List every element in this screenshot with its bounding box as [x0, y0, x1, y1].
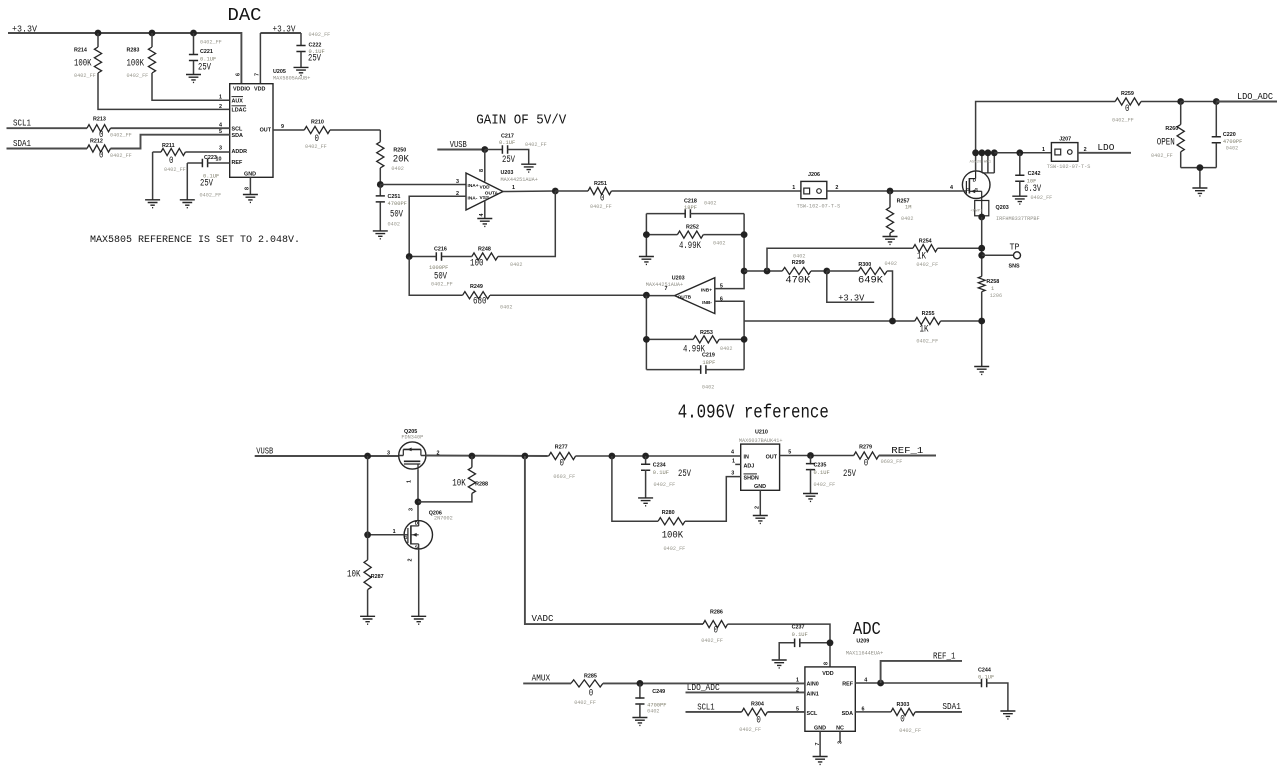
svg-text:C218: C218 [684, 199, 697, 205]
svg-text:0402_FF: 0402_FF [590, 204, 612, 210]
resistor R250 [377, 130, 410, 185]
svg-text:R285: R285 [584, 674, 597, 680]
wire INA- [409, 196, 466, 256]
svg-text:0402: 0402 [704, 201, 716, 207]
node C249 [637, 680, 644, 687]
svg-text:0402: 0402 [647, 709, 659, 715]
svg-text:R300: R300 [858, 262, 871, 268]
resistor R259 [1112, 91, 1181, 124]
svg-text:LDAC: LDAC [232, 108, 247, 114]
svg-text:0: 0 [600, 193, 605, 205]
svg-text:4: 4 [950, 185, 953, 191]
svg-text:OUTB: OUTB [678, 294, 692, 300]
svg-text:0402: 0402 [901, 216, 913, 222]
node C234 branch [642, 453, 649, 460]
net LDO [1078, 142, 1131, 153]
wire Q206 gate [368, 534, 405, 536]
svg-text:0: 0 [714, 625, 719, 637]
wire R260/C220 bottom [1181, 168, 1217, 188]
svg-text:R286: R286 [710, 610, 723, 616]
svg-text:4.096V reference: 4.096V reference [678, 401, 829, 423]
resistor R254 [767, 239, 982, 272]
svg-text:0: 0 [900, 714, 905, 726]
svg-text:1K: 1K [920, 324, 929, 336]
connector J206 [792, 172, 840, 210]
svg-text:LDO_ADC: LDO_ADC [687, 682, 720, 693]
resistor R299 [782, 254, 827, 287]
svg-text:0.1UF: 0.1UF [499, 140, 515, 146]
svg-text:ADJ: ADJ [744, 464, 755, 470]
capacitor C217 [485, 134, 547, 167]
resistor R288 [418, 456, 488, 502]
node VUSB [481, 146, 488, 153]
title ADC [853, 620, 881, 640]
wire U205 GND pin [249, 177, 251, 194]
svg-text:1: 1 [512, 185, 515, 191]
net VUSB [437, 139, 485, 150]
svg-text:4: 4 [731, 449, 734, 455]
svg-text:100K: 100K [74, 58, 92, 70]
node drain pins [972, 149, 998, 156]
wire Q206 source [418, 549, 420, 616]
op-amp U209 box [796, 639, 883, 746]
svg-text:4.99K: 4.99K [679, 240, 701, 252]
wire OUTA [503, 190, 555, 193]
node source [978, 214, 985, 221]
node VADC branch [522, 453, 529, 460]
svg-text:MAX5805 REFERENCE IS SET TO 2.: MAX5805 REFERENCE IS SET TO 2.048V. [90, 235, 300, 246]
svg-text:REF_1: REF_1 [891, 445, 924, 456]
svg-text:1: 1 [407, 480, 413, 483]
ground [411, 616, 426, 624]
svg-text:0402_FF: 0402_FF [814, 482, 836, 488]
wire Q205 gate down [417, 469, 419, 520]
capacitor C237 [772, 625, 830, 668]
resistor R211 [153, 143, 230, 200]
capacitor C251 [376, 185, 407, 231]
ground [180, 200, 195, 208]
Q203 package [971, 201, 1040, 223]
svg-text:6.3V: 6.3V [1024, 183, 1041, 195]
svg-text:3: 3 [731, 471, 734, 477]
svg-text:18PF: 18PF [702, 360, 715, 366]
ground [813, 757, 828, 765]
svg-text:0402_FF: 0402_FF [701, 638, 723, 644]
net VUSB bottom [255, 446, 399, 457]
svg-text:J207: J207 [1059, 137, 1071, 143]
net LDO_ADC [1216, 91, 1277, 102]
svg-text:8: 8 [245, 187, 251, 190]
svg-text:3: 3 [456, 179, 459, 185]
svg-text:1206: 1206 [990, 293, 1002, 299]
svg-text:OPEN: OPEN [1157, 137, 1175, 149]
resistor R257 [886, 191, 913, 237]
svg-text:U210: U210 [755, 430, 768, 436]
ground [186, 75, 201, 83]
ground [294, 67, 309, 75]
svg-text:MAX11644EUA+: MAX11644EUA+ [846, 651, 883, 657]
svg-text:1M: 1M [905, 205, 911, 211]
svg-text:7: 7 [665, 286, 668, 292]
svg-text:R255: R255 [922, 311, 935, 317]
pin numbers U205 [216, 73, 285, 190]
wire ADJ stub [735, 463, 741, 465]
svg-text:0402_FF: 0402_FF [110, 133, 132, 139]
wire U210 GND [759, 490, 761, 515]
svg-text:1: 1 [393, 529, 396, 535]
op-amp U210 box [731, 430, 791, 510]
svg-text:0402_FF: 0402_FF [1031, 195, 1053, 201]
resistor R286 [701, 610, 830, 667]
ground [1012, 196, 1027, 204]
wire top rail [976, 102, 1116, 153]
resistor R303 [855, 702, 921, 734]
svg-text:1: 1 [219, 95, 222, 101]
svg-text:10K: 10K [452, 478, 466, 490]
svg-text:0402_FF: 0402_FF [739, 727, 761, 733]
net AMUX [523, 673, 571, 684]
svg-text:<PWP1: <PWP1 [971, 209, 984, 214]
resistor R253 [646, 296, 744, 370]
svg-text:C251: C251 [388, 194, 401, 200]
node C220 top [1213, 98, 1220, 105]
node junction [95, 30, 197, 37]
net SCL1 [7, 118, 230, 129]
svg-text:VUSB: VUSB [256, 446, 273, 457]
svg-text:G: G [966, 187, 970, 193]
svg-text:SCL1: SCL1 [13, 118, 31, 129]
svg-text:0.1UF: 0.1UF [814, 470, 830, 476]
svg-text:0402: 0402 [793, 254, 805, 260]
svg-text:3: 3 [409, 508, 415, 511]
svg-text:1: 1 [792, 185, 795, 191]
wire to INA+ [380, 184, 466, 186]
ground [360, 616, 375, 624]
ground [639, 257, 654, 265]
svg-text:0402_FF: 0402_FF [431, 282, 453, 288]
svg-text:C216: C216 [434, 247, 447, 253]
ground [521, 164, 536, 172]
svg-text:VDD: VDD [822, 671, 833, 677]
svg-text:0402_FF: 0402_FF [525, 142, 547, 148]
node VUSB junctions [364, 453, 371, 460]
resistor R285 [571, 674, 805, 707]
svg-text:0402_FF: 0402_FF [110, 153, 132, 159]
svg-text:100K: 100K [662, 530, 684, 542]
node R255 right [978, 318, 985, 325]
wire NC stub [839, 731, 841, 742]
svg-text:C244: C244 [978, 668, 991, 674]
note text [90, 235, 300, 246]
svg-text:SNS: SNS [1009, 264, 1020, 270]
node R252 left [643, 231, 650, 238]
resistor R260 [1151, 102, 1184, 168]
wire rail [547, 455, 550, 457]
wire INB- [715, 301, 744, 321]
svg-text:0402_FF: 0402_FF [664, 546, 686, 552]
capacitor C249 [635, 683, 666, 717]
svg-text:SDA1: SDA1 [942, 701, 961, 712]
ground [373, 231, 388, 239]
svg-text:0402_FF: 0402_FF [899, 728, 921, 734]
svg-text:SCL: SCL [807, 711, 818, 717]
ground [753, 516, 768, 524]
wire source rail [981, 217, 983, 276]
node C235 [807, 452, 814, 459]
net +3.3V stub [827, 271, 874, 304]
node mid [741, 268, 748, 275]
svg-text:LDO_ADC: LDO_ADC [1237, 91, 1273, 102]
svg-text:0.1UF: 0.1UF [792, 632, 808, 638]
svg-text:2: 2 [219, 104, 222, 110]
svg-text:C223: C223 [204, 155, 217, 161]
svg-text:4: 4 [479, 214, 485, 217]
svg-text:680: 680 [473, 296, 487, 308]
net +3.3V (VDD) [260, 24, 301, 84]
svg-text:25V: 25V [502, 154, 515, 166]
wire OUT [273, 129, 304, 131]
svg-text:R304: R304 [751, 702, 764, 708]
svg-text:Q203: Q203 [996, 205, 1009, 211]
svg-text:GND: GND [754, 484, 766, 490]
node R253 right [741, 336, 748, 343]
svg-text:DAC: DAC [228, 6, 262, 26]
svg-text:R213: R213 [93, 117, 106, 123]
svg-text:ADDR: ADDR [232, 149, 248, 155]
svg-text:0402_FF: 0402_FF [164, 167, 186, 173]
svg-text:U203: U203 [672, 276, 685, 282]
svg-text:0402_FF: 0402_FF [574, 700, 596, 706]
svg-text:R212: R212 [90, 139, 103, 145]
svg-text:R287: R287 [371, 574, 384, 580]
svg-text:AMUX: AMUX [532, 673, 551, 684]
wire J206 out [827, 190, 963, 192]
svg-text:REF_1: REF_1 [933, 651, 956, 662]
svg-text:R210: R210 [311, 120, 324, 126]
svg-text:C235: C235 [814, 463, 827, 469]
test point TP [982, 242, 1021, 270]
svg-text:0402: 0402 [388, 222, 400, 228]
svg-text:C237: C237 [792, 625, 805, 631]
svg-text:0402_FF: 0402_FF [200, 193, 222, 199]
resistor R255 [915, 311, 982, 345]
svg-text:18PF: 18PF [684, 205, 697, 211]
node R253 left [643, 336, 650, 343]
svg-text:R249: R249 [470, 284, 483, 290]
svg-text:MAX6037BAUK41+: MAX6037BAUK41+ [739, 438, 783, 444]
node R300 corner [889, 318, 896, 325]
svg-text:LDO: LDO [1097, 142, 1114, 153]
svg-text:0402_FF: 0402_FF [127, 73, 149, 79]
ground [1192, 188, 1207, 196]
svg-text:3: 3 [387, 450, 390, 456]
svg-text:25V: 25V [308, 53, 321, 65]
svg-text:0402_FF: 0402_FF [916, 262, 938, 268]
svg-text:TP: TP [1010, 242, 1020, 253]
svg-text:U209: U209 [856, 639, 869, 645]
wire U210 OUT [780, 455, 854, 457]
svg-text:0402_FF: 0402_FF [305, 144, 327, 150]
svg-text:VDD: VDD [254, 87, 265, 93]
node R260 top [1177, 98, 1184, 105]
svg-text:25V: 25V [200, 178, 213, 190]
resistor R280 [612, 456, 741, 552]
svg-text:0402: 0402 [720, 346, 732, 352]
svg-text:AIN1: AIN1 [807, 691, 819, 697]
node gnd junction [1197, 164, 1204, 171]
capacitor C221 [189, 33, 222, 75]
svg-text:SDA: SDA [232, 133, 243, 139]
svg-text:0.1UF: 0.1UF [978, 675, 994, 681]
resistor R214 [74, 33, 230, 109]
title DAC [228, 6, 262, 26]
resistor R212 [87, 139, 132, 162]
svg-text:C221: C221 [200, 49, 213, 55]
capacitor C220 [1212, 102, 1243, 168]
svg-text:NC: NC [836, 725, 844, 731]
resistor R210 [304, 120, 380, 151]
node INA- junction [406, 253, 413, 260]
svg-text:SCL: SCL [232, 126, 243, 132]
svg-text:470K: 470K [785, 275, 811, 287]
svg-text:R253: R253 [700, 330, 713, 336]
net +3.3V [8, 24, 241, 84]
svg-text:OUT: OUT [766, 455, 778, 461]
wire drain to J207 [994, 152, 1051, 154]
resistor R252 [646, 214, 744, 257]
svg-text:R259: R259 [1121, 91, 1134, 97]
svg-text:SDA: SDA [842, 711, 853, 717]
svg-text:4700PF: 4700PF [1223, 139, 1242, 145]
svg-text:0603_FF: 0603_FF [553, 474, 575, 480]
wire U209 GND [819, 731, 821, 756]
svg-text:R248: R248 [478, 247, 491, 253]
svg-text:1: 1 [1042, 147, 1045, 153]
resistor R279 [854, 445, 903, 470]
svg-text:VDDIO: VDDIO [233, 87, 250, 93]
title GAIN OF 5V/V [476, 114, 567, 129]
node gate Q206 [364, 531, 371, 538]
svg-text:R280: R280 [662, 510, 675, 516]
svg-text:ADC: ADC [853, 620, 881, 640]
node R254 [978, 245, 985, 252]
ground [145, 200, 160, 208]
resistor R283 [127, 33, 230, 100]
resistor R287 [347, 456, 384, 616]
svg-text:100K: 100K [127, 58, 145, 70]
svg-text:8: 8 [824, 662, 830, 665]
net REF_1 adc [881, 651, 962, 684]
svg-text:7: 7 [255, 73, 261, 76]
ground [632, 718, 647, 726]
ground [974, 367, 989, 375]
node C242 tap [1016, 149, 1023, 156]
capacitor C242 [1015, 153, 1052, 201]
svg-text:GAIN OF 5V/V: GAIN OF 5V/V [476, 114, 567, 129]
svg-text:R252: R252 [686, 225, 699, 231]
op-amp U203A [456, 150, 538, 219]
svg-text:R254: R254 [919, 239, 932, 245]
svg-text:1K: 1K [917, 251, 926, 263]
svg-text:2: 2 [408, 559, 414, 562]
transistor Q205 [387, 429, 440, 483]
svg-text:0: 0 [560, 458, 565, 470]
svg-text:649K: 649K [858, 275, 884, 287]
svg-text:IRFHM8337TRPBF: IRFHM8337TRPBF [996, 216, 1040, 222]
node OUTA [552, 188, 559, 195]
ground [803, 494, 818, 502]
net REF_1 [879, 445, 936, 456]
transistor Q206 [393, 508, 453, 562]
svg-text:IN: IN [744, 455, 749, 461]
svg-text:C217: C217 [501, 134, 514, 140]
ground [883, 237, 898, 245]
svg-text:R251: R251 [594, 181, 607, 187]
node REF [877, 680, 884, 687]
node R250/C251 [377, 181, 384, 188]
svg-text:0: 0 [99, 150, 104, 162]
svg-text:0.1UF: 0.1UF [653, 470, 669, 476]
svg-text:9: 9 [281, 124, 284, 130]
Q203 drain pins [970, 153, 995, 173]
svg-text:C219: C219 [702, 353, 715, 359]
svg-text:R214: R214 [74, 48, 87, 54]
svg-text:0: 0 [1125, 103, 1130, 115]
svg-text:+3.3V: +3.3V [838, 293, 864, 304]
svg-text:1: 1 [991, 286, 994, 292]
net SCL1 in [686, 702, 742, 713]
svg-text:INA+: INA+ [468, 183, 479, 189]
svg-text:A5W29-WD1: A5W29-WD1 [970, 160, 992, 164]
wire bottom mid [744, 320, 915, 322]
svg-text:R279: R279 [859, 445, 872, 451]
svg-text:VDD: VDD [480, 184, 491, 190]
svg-text:0402_FF: 0402_FF [916, 339, 938, 345]
svg-text:0: 0 [864, 458, 869, 470]
svg-text:25V: 25V [678, 468, 691, 480]
svg-text:TSW-102-07-T-S: TSW-102-07-T-S [797, 204, 841, 210]
resistor R277 [549, 445, 741, 481]
svg-text:100: 100 [470, 258, 484, 270]
svg-text:5: 5 [788, 449, 791, 455]
capacitor C223 [187, 155, 229, 200]
op-amp U203B [646, 276, 723, 314]
svg-text:OUT: OUT [260, 128, 272, 134]
svg-text:2N7002: 2N7002 [434, 516, 453, 522]
net LDO_ADC in [686, 682, 805, 693]
svg-text:0603_FF: 0603_FF [881, 459, 903, 465]
svg-text:8: 8 [479, 169, 485, 172]
svg-text:SCL1: SCL1 [697, 702, 715, 713]
node R252 right [741, 231, 748, 238]
svg-text:20K: 20K [393, 154, 410, 166]
svg-text:0402_FF: 0402_FF [74, 73, 96, 79]
svg-text:25V: 25V [843, 468, 856, 480]
svg-text:2: 2 [835, 185, 838, 191]
svg-text:R211: R211 [162, 143, 175, 149]
node R288 top [469, 453, 476, 460]
wire INB+ [715, 214, 744, 289]
svg-text:VADC: VADC [532, 613, 554, 624]
net SDA1 [7, 135, 230, 149]
wire feedback A [498, 191, 555, 257]
resistor R248 [441, 247, 522, 270]
svg-text:0402: 0402 [510, 262, 522, 268]
svg-text:R258: R258 [986, 279, 999, 285]
ground [243, 195, 258, 203]
svg-text:R283: R283 [127, 48, 140, 54]
svg-text:D: D [415, 520, 419, 526]
